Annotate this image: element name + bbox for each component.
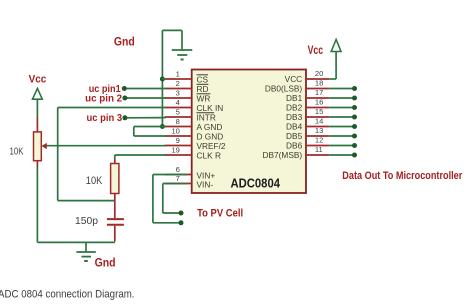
svg-text:VCC: VCC	[285, 74, 303, 84]
wire DB pin 17	[329, 97, 354, 99]
svg-text:To PV Cell: To PV Cell	[197, 208, 243, 220]
pin 18 stub	[306, 88, 329, 90]
wire CLK IN to RC junction	[58, 200, 115, 202]
pin 10 stub	[165, 135, 192, 137]
svg-text:CLK IN: CLK IN	[197, 103, 224, 113]
svg-text:WR: WR	[197, 93, 211, 103]
ground symbol bottom	[76, 251, 95, 253]
overline for CS	[197, 74, 209, 76]
svg-text:14: 14	[315, 117, 323, 126]
pin 12 stub	[306, 145, 329, 147]
svg-text:ADC0804: ADC0804	[231, 175, 281, 190]
svg-text:16: 16	[315, 98, 323, 107]
svg-text:A GND: A GND	[197, 122, 223, 132]
svg-text:ADC 0804 connection Diagram.: ADC 0804 connection Diagram.	[0, 288, 135, 300]
resistor top stub	[114, 160, 116, 164]
wire ground net vertical	[161, 30, 163, 126]
svg-text:3: 3	[176, 88, 180, 97]
node pin 12 terminal	[352, 143, 357, 148]
wire VIN- vertical	[162, 184, 164, 214]
wire ground rail bottom	[37, 241, 114, 243]
node uc pin 3 terminal	[122, 115, 127, 120]
svg-text:DB5: DB5	[286, 131, 303, 141]
capacitor C1 150p top plate	[107, 218, 124, 220]
svg-text:Data Out To Microcontroller: Data Out To Microcontroller	[342, 170, 463, 182]
wire D GND	[134, 135, 166, 137]
svg-text:Gnd: Gnd	[95, 256, 116, 269]
svg-text:17: 17	[315, 88, 323, 97]
svg-text:9: 9	[176, 136, 180, 145]
svg-text:VIN-: VIN-	[197, 180, 214, 190]
pin 20 stub	[306, 78, 329, 80]
svg-text:CLK R: CLK R	[197, 150, 221, 160]
svg-text:15: 15	[315, 107, 323, 116]
svg-text:4: 4	[176, 98, 180, 107]
pin 5 stub	[165, 116, 192, 118]
pin 17 stub	[306, 97, 329, 99]
pin 6 stub	[165, 174, 192, 176]
svg-text:12: 12	[315, 136, 323, 145]
node pin 13 terminal	[352, 134, 357, 139]
node pin 14 terminal	[352, 124, 357, 129]
svg-text:DB4: DB4	[286, 121, 303, 131]
IC U1 ADC0804 body	[192, 70, 306, 194]
svg-text:10K: 10K	[86, 175, 103, 187]
wire CLK R horizontal	[115, 154, 166, 156]
resistor bottom stub to cap	[114, 194, 116, 219]
wire CLK IN horizontal	[58, 107, 166, 109]
svg-text:D GND: D GND	[197, 131, 224, 141]
svg-text:Vcc: Vcc	[308, 45, 324, 57]
svg-text:8: 8	[176, 117, 180, 126]
pin 19 stub	[165, 154, 192, 156]
svg-text:INTR: INTR	[197, 112, 216, 122]
junction node pin8/A GND	[160, 124, 165, 129]
svg-text:13: 13	[315, 126, 323, 135]
wire CLK IN vertical	[57, 108, 59, 201]
wire DB pin 14	[329, 126, 354, 128]
wire pot bottom to ground rail	[36, 167, 38, 243]
svg-text:5: 5	[176, 107, 180, 116]
overline for INTR	[197, 112, 215, 114]
wire DB pin 15	[329, 116, 354, 118]
wire VIN- bottom	[163, 212, 181, 214]
node VIN- terminal	[179, 211, 184, 216]
wire pin20 to Vcc	[329, 78, 336, 80]
wire ground net horizontal top	[162, 29, 182, 31]
wire A GND	[134, 126, 166, 128]
wire DB pin 18	[329, 88, 354, 90]
pot top stub	[36, 117, 38, 132]
svg-text:6: 6	[176, 165, 180, 174]
node pin 17 terminal	[352, 96, 357, 101]
svg-text:DB6: DB6	[286, 140, 303, 150]
svg-text:1: 1	[176, 69, 180, 78]
wire DB pin 13	[329, 135, 354, 137]
svg-text:20: 20	[315, 69, 323, 78]
wire A GND to D GND loop	[133, 127, 135, 137]
node uc pin 2 terminal	[122, 96, 127, 101]
potentiometer 10K body	[34, 132, 42, 161]
cap bottom stub	[114, 226, 116, 242]
wire pin1 to net	[162, 78, 165, 80]
svg-text:RD: RD	[197, 84, 209, 94]
pin 9 stub	[165, 145, 192, 147]
power symbol Vcc right arrow	[331, 40, 341, 52]
wire DB pin 12	[329, 145, 354, 147]
pin 15 stub	[306, 116, 329, 118]
wire uc pin 3 to INTR	[125, 117, 166, 119]
svg-text:11: 11	[315, 145, 323, 154]
pot bottom stub	[36, 161, 38, 167]
node pin 11 terminal	[352, 153, 357, 158]
wire DB pin 16	[329, 107, 354, 109]
ground symbol top	[172, 49, 193, 51]
pin 3 stub	[165, 97, 192, 99]
pin 13 stub	[306, 135, 329, 137]
pin 4 stub	[165, 107, 192, 109]
pin 11 stub	[306, 154, 329, 156]
power symbol Vcc left arrow	[33, 88, 43, 99]
svg-text:DB3: DB3	[286, 112, 303, 122]
pin 16 stub	[306, 107, 329, 109]
wire uc pin1 to RD	[124, 88, 165, 90]
svg-text:DB1: DB1	[286, 93, 303, 103]
pin 1 stub	[165, 78, 192, 80]
pot wiper arrow	[42, 143, 47, 149]
wire VIN+ bottom	[153, 222, 181, 224]
junction node pin1/CS	[160, 77, 165, 82]
wire VIN+ vertical	[152, 175, 154, 223]
wire uc pin 2 to WR	[125, 97, 166, 99]
overline for RD	[197, 83, 209, 85]
overline for WR	[197, 93, 211, 95]
wire VIN+ horizontal	[153, 174, 187, 176]
wire ground symbol drop	[181, 30, 183, 49]
svg-text:DB0(LSB): DB0(LSB)	[265, 83, 303, 93]
svg-text:Vcc: Vcc	[29, 73, 47, 85]
capacitor C1 150p bottom plate	[107, 224, 124, 226]
node pin 16 terminal	[352, 105, 357, 110]
node pin 18 terminal	[352, 86, 357, 91]
pin 8 stub	[165, 126, 192, 128]
svg-text:18: 18	[315, 79, 323, 88]
pin 14 stub	[306, 126, 329, 128]
svg-text:DB7(MSB): DB7(MSB)	[263, 150, 303, 160]
svg-text:uc pin 3: uc pin 3	[87, 113, 123, 124]
pin 2 stub	[165, 88, 192, 90]
ground symbol bottom drop	[85, 242, 87, 251]
svg-text:VREF/2: VREF/2	[197, 141, 226, 151]
node uc pin1 terminal	[122, 86, 127, 91]
svg-text:2: 2	[176, 79, 180, 88]
svg-text:10: 10	[171, 126, 179, 135]
svg-text:150p: 150p	[75, 216, 98, 227]
pin 7 stub	[165, 183, 192, 185]
wire Vcc to pot top	[36, 99, 38, 116]
svg-text:DB2: DB2	[286, 102, 303, 112]
node pin 15 terminal	[352, 115, 357, 120]
wire wiper to VREF/2	[47, 145, 166, 147]
svg-text:19: 19	[171, 145, 179, 154]
svg-text:uc pin 2: uc pin 2	[85, 94, 122, 105]
svg-text:Gnd: Gnd	[114, 34, 135, 48]
wire CLK R down to resistor	[114, 155, 116, 160]
svg-text:10K: 10K	[10, 146, 24, 157]
wire DB pin 11	[329, 154, 354, 156]
node VIN+ terminal	[179, 220, 184, 225]
resistor R1 10K body	[111, 164, 119, 194]
wire VIN- horizontal	[163, 183, 187, 185]
wire Vcc riser	[335, 52, 337, 80]
svg-text:CS: CS	[197, 74, 209, 84]
